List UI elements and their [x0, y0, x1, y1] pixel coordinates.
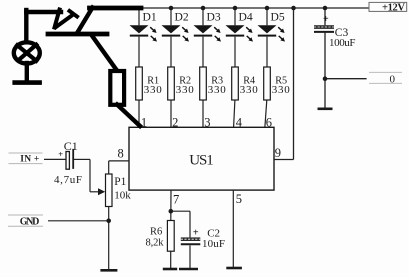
- svg-text:9: 9: [275, 146, 281, 160]
- svg-text:6: 6: [266, 115, 272, 129]
- svg-text:5: 5: [236, 192, 242, 206]
- svg-text:330: 330: [272, 84, 291, 96]
- svg-text:8: 8: [118, 147, 124, 161]
- svg-text:4: 4: [236, 115, 243, 129]
- svg-text:+: +: [193, 228, 199, 239]
- svg-text:+: +: [58, 149, 63, 159]
- svg-text:330: 330: [208, 84, 227, 96]
- svg-text:GND: GND: [20, 217, 40, 228]
- svg-text:D3: D3: [207, 10, 221, 23]
- svg-text:330: 330: [144, 84, 163, 96]
- svg-text:D5: D5: [271, 10, 285, 23]
- svg-text:IN +: IN +: [20, 155, 39, 165]
- svg-text:100uF: 100uF: [329, 37, 356, 49]
- svg-text:+: +: [323, 14, 329, 25]
- svg-text:7: 7: [173, 193, 179, 207]
- svg-text:P1: P1: [114, 176, 126, 188]
- svg-text:0: 0: [390, 73, 396, 85]
- svg-text:330: 330: [240, 84, 259, 96]
- svg-text:R6: R6: [150, 227, 162, 238]
- svg-text:D1: D1: [143, 10, 157, 23]
- svg-text:US1: US1: [189, 152, 214, 168]
- svg-text:10k: 10k: [114, 189, 131, 201]
- svg-text:10uF: 10uF: [202, 238, 225, 250]
- svg-text:3: 3: [204, 115, 210, 129]
- svg-text:1: 1: [141, 115, 147, 129]
- svg-text:C1: C1: [64, 139, 78, 153]
- svg-text:D4: D4: [239, 10, 253, 23]
- svg-text:4,7uF: 4,7uF: [54, 174, 82, 186]
- svg-text:D2: D2: [175, 10, 189, 23]
- svg-text:+12V: +12V: [382, 3, 405, 14]
- svg-text:330: 330: [176, 84, 195, 96]
- svg-text:2: 2: [172, 115, 178, 129]
- svg-text:8,2k: 8,2k: [146, 238, 165, 249]
